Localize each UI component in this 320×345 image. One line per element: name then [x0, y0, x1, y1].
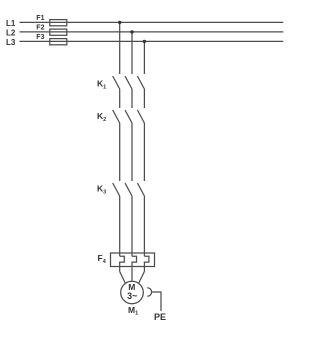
wire K1-K2 pole 3 [143, 89, 145, 108]
wire K2-K3 pole 1 [119, 123, 121, 181]
fuse F3 [50, 39, 67, 45]
wire F4 to motor pole 2 [131, 267, 133, 281]
junction dot phase3 [143, 40, 146, 43]
wire K3-F4 pole 2 [131, 196, 133, 256]
contactor K2 pole 3 [137, 110, 144, 123]
svg-text:3~: 3~ [127, 291, 137, 301]
contactor K2 pole 2 [125, 110, 132, 123]
wire L3 bus [20, 40, 284, 42]
wire phase1 drop [119, 22, 121, 74]
svg-text:L3: L3 [6, 38, 16, 47]
wire F4 to motor pole 1 [120, 272, 126, 284]
wire L1 bus [20, 21, 284, 23]
svg-text:PE: PE [154, 312, 166, 322]
junction dot phase2 [130, 30, 133, 33]
svg-text:M1: M1 [128, 305, 138, 317]
svg-text:F4: F4 [98, 253, 107, 265]
junction dot phase1 [118, 21, 121, 24]
svg-text:K2: K2 [97, 111, 106, 123]
svg-text:K3: K3 [97, 184, 106, 196]
wire K3-F4 pole 1 [119, 196, 121, 256]
wire K2-K3 pole 3 [143, 123, 145, 181]
wire K3-F4 pole 3 [143, 196, 145, 256]
overload relay F4 thermal element 3 [144, 256, 149, 271]
overload relay F4 thermal element 1 [120, 256, 125, 271]
contactor K1 pole 2 [125, 76, 132, 89]
svg-text:L1: L1 [6, 19, 16, 28]
wire phase2 drop [131, 32, 133, 74]
overload relay F4 thermal element 2 [132, 256, 137, 267]
motor M1 circle [121, 281, 144, 304]
fuse F2 [50, 29, 67, 35]
svg-text:F3: F3 [36, 34, 44, 41]
wire L2 bus [20, 31, 284, 33]
contactor K3 pole 2 [125, 183, 132, 196]
contactor K2 pole 1 [113, 110, 120, 123]
contactor K1 pole 3 [137, 76, 144, 89]
overload relay F4 box [111, 253, 155, 267]
svg-text:F1: F1 [36, 15, 44, 22]
wire K1-K2 pole 2 [131, 89, 133, 108]
svg-text:L2: L2 [6, 28, 16, 37]
wire phase3 drop [143, 41, 145, 74]
wire K2-K3 pole 2 [131, 123, 133, 181]
contactor K3 pole 3 [137, 183, 144, 196]
contactor K1 pole 1 [113, 76, 120, 89]
contactor K3 pole 1 [113, 183, 120, 196]
wire F4 to motor pole 3 [139, 272, 145, 284]
wire K1-K2 pole 1 [119, 89, 121, 108]
svg-text:F2: F2 [36, 25, 44, 32]
fuse F1 [50, 20, 67, 26]
svg-text:K1: K1 [97, 79, 106, 91]
wire PE [152, 292, 161, 311]
motor frame terminal arc [147, 288, 151, 297]
